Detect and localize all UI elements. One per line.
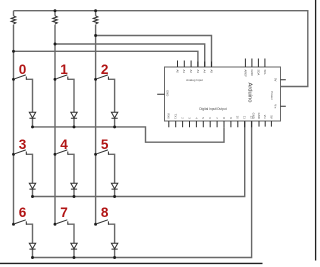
svg-text:GND: GND xyxy=(250,70,254,76)
svg-text:10: 10 xyxy=(236,116,240,120)
svg-text:0: 0 xyxy=(19,62,27,77)
svg-text:11: 11 xyxy=(243,116,247,119)
svg-text:1: 1 xyxy=(60,62,68,77)
svg-text:4: 4 xyxy=(60,137,68,152)
svg-text:A4: A4 xyxy=(203,70,207,74)
svg-text:A2: A2 xyxy=(189,70,193,74)
svg-text:A0: A0 xyxy=(175,70,179,74)
svg-text:5: 5 xyxy=(101,137,109,152)
svg-text:RX0: RX0 xyxy=(167,113,171,119)
svg-text:TX1: TX1 xyxy=(174,114,178,120)
svg-text:Digital Input/Output: Digital Input/Output xyxy=(199,107,226,111)
svg-text:3: 3 xyxy=(19,137,27,152)
svg-text:GND: GND xyxy=(166,90,170,96)
svg-text:5V: 5V xyxy=(273,78,277,82)
svg-text:Power: Power xyxy=(270,91,274,100)
svg-text:2: 2 xyxy=(101,62,109,77)
svg-text:7: 7 xyxy=(60,205,68,220)
svg-text:A3: A3 xyxy=(196,70,200,74)
svg-text:GND: GND xyxy=(251,113,255,119)
svg-text:A5: A5 xyxy=(209,70,213,74)
svg-text:A1: A1 xyxy=(182,70,186,74)
svg-text:Analog Input: Analog Input xyxy=(186,78,203,82)
svg-text:Vin: Vin xyxy=(273,104,277,108)
svg-text:Vin: Vin xyxy=(263,115,267,119)
svg-text:GND: GND xyxy=(257,113,261,119)
svg-text:SDA: SDA xyxy=(256,70,260,76)
svg-text:SCL: SCL xyxy=(263,70,267,76)
svg-text:Arduino: Arduino xyxy=(246,83,252,103)
svg-text:8: 8 xyxy=(101,205,109,220)
svg-text:5V: 5V xyxy=(269,115,273,119)
svg-text:6: 6 xyxy=(19,205,27,220)
svg-text:AREF: AREF xyxy=(243,70,247,78)
